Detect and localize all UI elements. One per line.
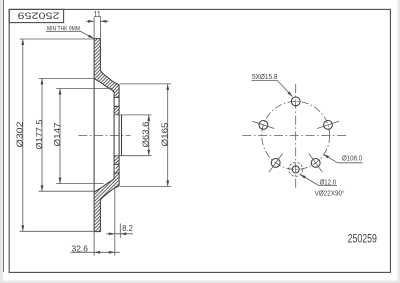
screw hole bottom edge (section, lower) [114, 172, 119, 174]
svg-text:11: 11 [94, 9, 101, 19]
hatch ring bar and transition band bottom [94, 173, 119, 232]
dia302 arrow bottom [21, 225, 24, 231]
dia147 extension line bottom [56, 183, 103, 185]
svg-text:Ø108.0: Ø108.0 [342, 153, 362, 162]
32.6 dimension line [71, 251, 120, 253]
right gray margin strip [398, 0, 400, 283]
5X dia15.8 underline [252, 80, 278, 82]
11 dimension line left stub [86, 20, 94, 22]
dia165 extension line top [120, 83, 172, 85]
dia147 arrow top [59, 89, 62, 95]
11 arrow left [88, 20, 94, 23]
svg-text:250259: 250259 [348, 232, 377, 245]
svg-text:Ø177.5: Ø177.5 [35, 119, 44, 150]
radial tick lower-right hole [309, 154, 323, 173]
dia63.6 arrow top [147, 115, 150, 121]
countersink edge marks in screw hole [116, 165, 119, 168]
dia63.6 extension line bottom [115, 155, 152, 157]
bolt hole lower-right [311, 159, 320, 168]
8.2 dimension line [106, 233, 133, 235]
11 extension line right [99, 17, 101, 39]
dia177.5 arrow top [41, 78, 44, 84]
5X dia15.8 leader arrowhead [287, 91, 293, 97]
dia147 arrow bottom [59, 178, 62, 184]
bolt hole top edge (section, upper) [114, 96, 119, 98]
svg-text:5XØ15.8: 5XØ15.8 [252, 72, 278, 81]
svg-text:250259: 250259 [18, 10, 60, 21]
dia302 extension line bottom [20, 230, 95, 232]
radial tick upper-left hole [252, 121, 274, 128]
dia108.0 leader [324, 154, 338, 162]
countersink dia22 dashed circle [289, 162, 303, 176]
32.6 arrow left [94, 251, 100, 254]
ring bar top edge [94, 38, 100, 40]
horizontal centerline [242, 134, 347, 136]
8.2 arrow left [109, 232, 115, 235]
svg-text:Ø302: Ø302 [16, 122, 25, 148]
left page edge dark line [2, 0, 5, 272]
dia165 dimension line [167, 84, 169, 186]
pilot boss line [121, 115, 123, 156]
32.6 / 8.2 shared extension line [114, 186, 116, 255]
dia147 extension line top [56, 88, 113, 90]
section centerline [78, 135, 130, 137]
11 dimension line right stub [100, 20, 108, 22]
ring bar right edge bottom [99, 200, 101, 232]
ring bar right edge top [99, 39, 101, 71]
left gray margin strip [0, 0, 3, 283]
svg-text:Ø147: Ø147 [53, 123, 62, 147]
bolt hole top [291, 97, 300, 106]
dia63.6 dimension line [148, 115, 150, 156]
8.2 arrow right [120, 232, 126, 235]
5X dia15.8 leader [278, 81, 293, 97]
dia12.0 underline [319, 185, 337, 187]
bolt hole lower-left [271, 159, 280, 168]
dia302 extension line top [20, 38, 95, 40]
hat wall left edge [113, 93, 115, 179]
32.6 arrow right [109, 251, 115, 254]
dia12.0 leader [300, 175, 319, 186]
11 extension line left [93, 17, 95, 39]
dia302 dimension line [22, 39, 24, 231]
hatch ring bar and transition band top [94, 39, 119, 98]
set screw hole dia12 [292, 166, 299, 173]
dia302 arrow top [21, 39, 24, 45]
bolt hole upper-right [324, 121, 333, 130]
dia147 dimension line [59, 89, 61, 184]
svg-text:32.6: 32.6 [72, 243, 89, 253]
hat transition inner edge bottom [94, 178, 114, 193]
hatch wall between bore and hole bottom [114, 156, 119, 165]
svg-text:8.2: 8.2 [122, 223, 133, 233]
min thk underline [46, 30, 81, 32]
dia12.0 leader arrowhead [299, 173, 306, 179]
ring bar bottom edge [94, 231, 100, 233]
11 arrow right [100, 20, 106, 23]
svg-text:VØ22X90°: VØ22X90° [315, 188, 345, 197]
dia108.0 underline [338, 162, 363, 164]
bolt circle dia108 (dash-dot) [262, 101, 330, 169]
dia177.5 arrow bottom [41, 185, 44, 191]
32.6 extension line left (ring face extended) [93, 232, 95, 256]
vertical centerline [295, 84, 297, 189]
dia165 arrow bottom [166, 180, 169, 186]
8.2 extension line right [119, 223, 121, 238]
bolt hole bottom edge (section, upper) [114, 105, 119, 107]
radial tick upper-right hole [317, 121, 339, 128]
ring bar left edge [93, 39, 95, 232]
hat wall right edge [118, 85, 120, 186]
bottom gray margin strip [0, 281, 400, 283]
dia63.6 extension line top [115, 114, 152, 116]
min thk leader [81, 31, 94, 38]
dia165 arrow top [166, 84, 169, 90]
hat transition outer edge bottom [100, 185, 119, 200]
hat transition outer edge top [100, 71, 119, 86]
part number box (top-left) [9, 9, 63, 22]
dia177.5 dimension line [41, 78, 43, 191]
hatch wall between hole and bore top [114, 106, 119, 115]
dia165 extension line bottom [120, 185, 172, 187]
dia177.5 extension line bottom [39, 190, 95, 192]
screw hole top edge (section, lower) [114, 163, 119, 165]
hat transition inner edge top [94, 78, 114, 93]
dia177.5 extension line top [39, 77, 95, 79]
svg-text:MIN THK 9MM: MIN THK 9MM [47, 26, 80, 33]
dia108.0 leader arrowhead [323, 153, 330, 159]
dia63.6 arrow bottom [147, 150, 150, 156]
svg-text:Ø165: Ø165 [161, 122, 170, 147]
svg-text:Ø63.6: Ø63.6 [142, 121, 151, 148]
radial tick lower-left hole [269, 154, 283, 173]
bolt hole upper-left [259, 121, 268, 130]
min thk leader arrowhead [88, 34, 95, 39]
